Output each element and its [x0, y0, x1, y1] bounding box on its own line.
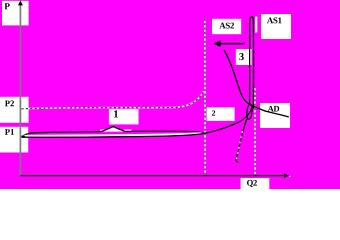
label box AS2	[212, 19, 241, 34]
label box Q2	[241, 178, 270, 189]
chevron black strokes	[102, 127, 125, 132]
text 3	[239, 53, 244, 60]
curve AS1 vertical line with hairpin top and AS2 left line	[250, 17, 254, 109]
text AD	[268, 106, 280, 112]
chevron white wing right	[124, 129, 132, 131]
chevron white wing left	[100, 129, 109, 131]
curve AS1 flat top line	[22, 131, 204, 136]
text P1	[5, 129, 14, 135]
vertical axis arrowhead	[18, 0, 23, 5]
text 2	[212, 110, 215, 115]
text Q2	[247, 180, 257, 187]
descender stroke below knot	[236, 119, 247, 162]
dashed line P2 horizontal with upward bend (dark dashes)	[22, 91, 204, 109]
label box AD	[260, 103, 290, 128]
label box P	[2, 1, 29, 26]
white strip fragment left of AS1 box	[255, 17, 257, 33]
label box 2	[207, 107, 235, 121]
chevron white triangle	[101, 126, 127, 131]
text P	[4, 3, 9, 9]
dashed vertical line Q2 (right) white underlay	[254, 86, 256, 175]
dashed vertical line Q (left) white underlay	[204, 19, 207, 176]
left tip wedge at P1	[21, 135, 25, 137]
dashed vertical line Q2 (right) dark dashes	[254, 86, 256, 175]
vertical axis P	[19, 4, 21, 177]
label box 3	[236, 49, 252, 65]
loop knot	[246, 104, 253, 120]
text 1	[114, 110, 118, 117]
text AS2	[219, 23, 234, 29]
curve AS1 flat bottom line	[22, 134, 204, 138]
text AS1	[267, 17, 282, 23]
dashed vertical line Q (left) dark dashes	[204, 19, 207, 176]
curve AD	[224, 50, 289, 117]
horizontal axis arrowhead	[284, 173, 289, 178]
label box 1	[109, 109, 139, 124]
label box AS1	[261, 14, 291, 39]
text P2	[5, 101, 14, 107]
AS shift arrow (points left)	[218, 43, 246, 45]
label box P2	[0, 97, 29, 123]
dashed line P2 horizontal with upward bend (white underlay)	[22, 91, 204, 109]
curve AS1 rising section	[204, 108, 253, 134]
horizontal axis Q	[20, 175, 283, 177]
curve AS1 flat bottom line white casing	[24, 133, 202, 136]
white dash breaks on lower descender	[236, 131, 242, 160]
AS shift arrowhead	[213, 40, 220, 47]
white speck right of axis arrowhead	[289, 176, 291, 177]
label box P1	[0, 127, 28, 153]
